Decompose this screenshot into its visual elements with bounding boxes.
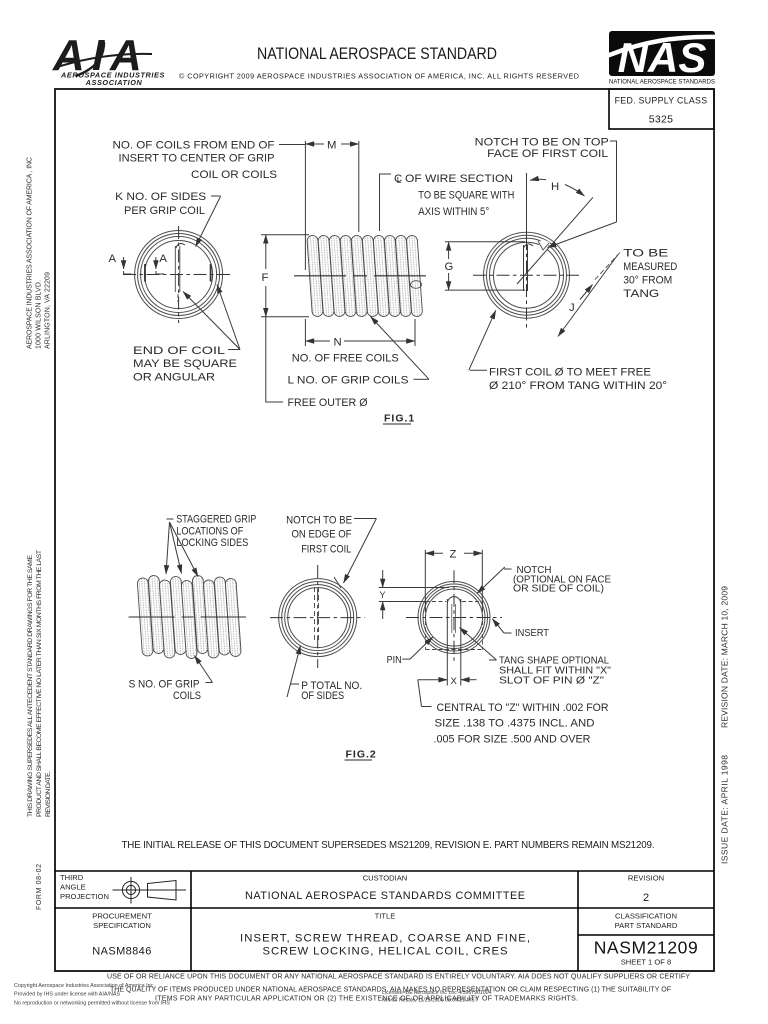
svg-text:AEROSPACE INDUSTRIES ASSOCIATI: AEROSPACE INDUSTRIES ASSOCIATION OF AMER…: [27, 157, 34, 349]
svg-text:INSERT: INSERT: [515, 628, 549, 639]
svg-text:ITEMS FOR ANY PARTICULAR APPLI: ITEMS FOR ANY PARTICULAR APPLICATION OR …: [155, 996, 578, 1003]
svg-text:REVISION DATE.: REVISION DATE.: [45, 771, 52, 817]
svg-text:STAGGERED GRIP: STAGGERED GRIP: [176, 514, 256, 526]
label: insert: [492, 619, 549, 639]
dimension Y: [379, 570, 449, 619]
svg-text:L: L: [397, 175, 402, 185]
section plane ticks: [144, 264, 146, 282]
svg-text:NO. OF FREE COILS: NO. OF FREE COILS: [292, 353, 399, 365]
svg-text:K NO. OF SIDES: K NO. OF SIDES: [115, 191, 206, 203]
svg-text:TITLE: TITLE: [375, 912, 396, 921]
svg-text:REVISION DATE: MARCH 10, 2009: REVISION DATE: MARCH 10, 2009: [720, 586, 730, 728]
svg-text:THE INITIAL RELEASE OF THIS DO: THE INITIAL RELEASE OF THIS DOCUMENT SUP…: [122, 840, 655, 851]
svg-text:INSERT TO CENTER OF GRIP: INSERT TO CENTER OF GRIP: [119, 153, 275, 165]
svg-text:J: J: [569, 302, 575, 314]
svg-text:PER GRIP COIL: PER GRIP COIL: [124, 205, 205, 217]
label: S no. of grip coils: [129, 656, 213, 703]
svg-text:2: 2: [643, 892, 649, 904]
svg-text:CENTRAL TO "Z" WITHIN .002 FOR: CENTRAL TO "Z" WITHIN .002 FOR: [437, 702, 609, 714]
svg-text:SHEET 1 OF 8: SHEET 1 OF 8: [621, 958, 672, 967]
svg-text:LOCATIONS OF: LOCATIONS OF: [176, 526, 243, 538]
end view circle C (middle): [270, 565, 365, 668]
svg-text:© COPYRIGHT 2009 AEROSPACE IND: © COPYRIGHT 2009 AEROSPACE INDUSTRIES AS…: [179, 72, 579, 81]
dimension N: [305, 319, 415, 349]
svg-text:TO BE: TO BE: [623, 248, 669, 260]
end view circle D (right, with pin): [406, 570, 502, 685]
projection symbol: [113, 877, 187, 904]
svg-text:1000 WILSON BLVD.: 1000 WILSON BLVD.: [36, 280, 43, 349]
svg-text:FACE OF FIRST COIL: FACE OF FIRST COIL: [487, 148, 608, 160]
svg-text:ARLINGTON, VA 22209: ARLINGTON, VA 22209: [45, 272, 52, 349]
svg-text:MAY BE SQUARE: MAY BE SQUARE: [133, 358, 238, 370]
svg-text:ON EDGE OF: ON EDGE OF: [292, 529, 352, 541]
svg-text:NASM21209: NASM21209: [594, 938, 699, 958]
svg-text:A: A: [159, 253, 167, 265]
drawing border frame: [55, 89, 714, 971]
dimension X: [418, 676, 477, 687]
svg-text:ANGLE: ANGLE: [60, 883, 86, 892]
svg-text:5325: 5325: [649, 114, 674, 126]
svg-text:No reproduction or networking: No reproduction or networking permitted …: [14, 1001, 170, 1007]
svg-text:NASM8846: NASM8846: [92, 946, 151, 958]
pin outline (hidden dashed): [426, 602, 483, 650]
svg-text:SLOT OF PIN Ø "Z": SLOT OF PIN Ø "Z": [499, 676, 605, 687]
label: notch to be on top face of first coil: [475, 136, 617, 247]
svg-text:Licensee=BE Aerospace Inc Loc: Licensee=BE Aerospace Inc Loc 4/59679610…: [382, 990, 492, 996]
svg-text:SPECIFICATION: SPECIFICATION: [93, 921, 151, 930]
label: K no. of sides per grip coil: [115, 191, 220, 247]
svg-text:CUSTODIAN: CUSTODIAN: [363, 874, 408, 883]
svg-text:INSERT, SCREW THREAD, COARSE A: INSERT, SCREW THREAD, COARSE AND FINE,: [240, 933, 530, 945]
leader: free outer dia: [266, 317, 283, 402]
svg-text:NOTCH TO BE: NOTCH TO BE: [286, 515, 352, 527]
svg-text:USE OF OR RELIANCE UPON THIS D: USE OF OR RELIANCE UPON THIS DOCUMENT OR…: [107, 974, 690, 981]
notch gap on first coil: [537, 239, 550, 253]
dimension G: [445, 242, 526, 290]
svg-text:G: G: [445, 261, 454, 273]
third angle projection cell: [60, 873, 186, 904]
svg-text:OF SIDES: OF SIDES: [301, 690, 344, 702]
tang slot X lines: [446, 599, 448, 686]
svg-text:END OF COIL: END OF COIL: [133, 345, 225, 357]
svg-text:Z: Z: [450, 549, 457, 561]
tang: [523, 245, 525, 291]
svg-text:THIRD: THIRD: [60, 873, 84, 882]
label: notch optional: [477, 565, 611, 595]
label: to be measured 30 deg from tang: [595, 248, 678, 301]
svg-text:COIL OR COILS: COIL OR COILS: [191, 169, 277, 181]
dimension M: [305, 140, 358, 271]
svg-text:NOTCH TO BE ON TOP: NOTCH TO BE ON TOP: [475, 136, 609, 148]
svg-text:OR ANGULAR: OR ANGULAR: [133, 372, 215, 384]
svg-text:.005 FOR SIZE .500 AND OVER: .005 FOR SIZE .500 AND OVER: [434, 734, 591, 746]
label: end of coil may be square or angular: [133, 285, 240, 384]
svg-text:Not for Resale, 11/25/2009 08:: Not for Resale, 11/25/2009 08:04:21 MST: [382, 998, 478, 1004]
svg-text:ASSOCIATION: ASSOCIATION: [85, 78, 143, 87]
dimension F: [261, 235, 309, 317]
dimension H (angle): [517, 179, 593, 284]
coil side view FIG.2 (staggered grip): [129, 575, 246, 659]
svg-text:NATIONAL AEROSPACE STANDARDS: NATIONAL AEROSPACE STANDARDS: [609, 79, 716, 86]
svg-text:30° FROM: 30° FROM: [623, 275, 672, 287]
svg-text:Copyright Aerospace Industries: Copyright Aerospace Industries Associati…: [14, 983, 155, 989]
svg-text:H: H: [551, 181, 559, 193]
label: pin: [387, 637, 433, 666]
svg-text:OF WIRE SECTION: OF WIRE SECTION: [405, 173, 513, 185]
svg-text:ISSUE DATE: APRIL 1998: ISSUE DATE: APRIL 1998: [720, 755, 730, 864]
label: centerline of wire section: [380, 173, 515, 231]
svg-text:Provided by IHS under license: Provided by IHS under license with AIA/N…: [14, 992, 120, 998]
svg-text:SCREW LOCKING, HELICAL COIL, C: SCREW LOCKING, HELICAL COIL, CRES: [263, 946, 508, 958]
svg-text:OR SIDE OF COIL): OR SIDE OF COIL): [513, 584, 604, 595]
svg-text:FED. SUPPLY CLASS: FED. SUPPLY CLASS: [615, 96, 708, 106]
svg-text:CLASSIFICATION: CLASSIFICATION: [615, 912, 677, 921]
svg-text:PROCUREMENT: PROCUREMENT: [92, 912, 152, 921]
title block grid: [55, 871, 714, 971]
svg-text:A: A: [109, 253, 117, 265]
svg-text:PRODUCT AND SHALL BECOME EFFEC: PRODUCT AND SHALL BECOME EFFECTIVE NO LA…: [36, 550, 43, 817]
svg-text:N: N: [334, 337, 342, 349]
svg-text:Y: Y: [380, 590, 387, 600]
label: no. of coils from end of insert: [113, 140, 278, 182]
svg-text:FIRST COIL: FIRST COIL: [301, 544, 351, 556]
label: notch to be on edge of first coil: [286, 515, 376, 584]
coil side view FIG.1: [294, 235, 430, 317]
svg-text:TO BE SQUARE WITH: TO BE SQUARE WITH: [418, 190, 514, 202]
tang hidden (dashed): [314, 587, 316, 641]
svg-text:Ø 210° FROM TANG WITHIN 20°: Ø 210° FROM TANG WITHIN 20°: [489, 380, 667, 392]
svg-text:NO. OF COILS FROM END OF: NO. OF COILS FROM END OF: [113, 140, 275, 152]
svg-text:LOCKING SIDES: LOCKING SIDES: [176, 537, 248, 549]
svg-text:F: F: [262, 272, 269, 284]
label: staggered grip locations of locking sides: [166, 514, 256, 577]
tang end-on: [174, 246, 176, 292]
svg-text:PROJECTION: PROJECTION: [60, 892, 109, 901]
svg-text:FORM 08-02: FORM 08-02: [36, 864, 43, 910]
svg-text:AXIS WITHIN 5°: AXIS WITHIN 5°: [418, 206, 489, 218]
end view circle B (right): [473, 173, 579, 331]
dimension J: [558, 255, 618, 337]
coil centerline: [294, 275, 430, 277]
notch on edge: [334, 577, 341, 588]
svg-text:THIS DRAWING SUPERSEDES ALL AN: THIS DRAWING SUPERSEDES ALL ANTECEDENT S…: [27, 555, 34, 817]
label: first coil dia to meet free: [469, 310, 667, 392]
svg-text:X: X: [451, 676, 458, 687]
svg-text:PART STANDARD: PART STANDARD: [615, 921, 678, 930]
svg-text:S NO. OF GRIP: S NO. OF GRIP: [129, 679, 200, 691]
section A-A letters and arrows: [109, 253, 168, 274]
svg-text:MEASURED: MEASURED: [623, 261, 677, 273]
label: tang shape optional: [460, 628, 612, 687]
svg-text:FIG.1: FIG.1: [384, 413, 415, 425]
end view circle A (left): [123, 226, 231, 323]
svg-text:REVISION: REVISION: [628, 874, 664, 883]
label: central to Z within .002: [418, 680, 609, 746]
svg-text:FREE OUTER Ø: FREE OUTER Ø: [288, 397, 368, 409]
NAS logo: [602, 31, 718, 86]
dimension Z: [425, 549, 482, 613]
leader to M extension: [279, 144, 305, 146]
svg-text:NATIONAL AEROSPACE STANDARD: NATIONAL AEROSPACE STANDARD: [257, 45, 497, 63]
svg-text:FIRST COIL Ø TO MEET FREE: FIRST COIL Ø TO MEET FREE: [489, 367, 651, 379]
svg-text:M: M: [327, 140, 336, 152]
svg-text:TANG: TANG: [623, 288, 659, 300]
svg-text:FIG.2: FIG.2: [346, 749, 377, 761]
AIA logo: [52, 31, 165, 87]
svg-text:NATIONAL AEROSPACE STANDARDS C: NATIONAL AEROSPACE STANDARDS COMMITTEE: [245, 890, 525, 902]
label: P total no. of sides: [287, 646, 362, 703]
wire end hook: [411, 281, 422, 289]
svg-text:L NO. OF GRIP COILS: L NO. OF GRIP COILS: [288, 375, 409, 387]
svg-text:COILS: COILS: [173, 690, 201, 702]
svg-text:SIZE .138 TO .4375 INCL. AND: SIZE .138 TO .4375 INCL. AND: [435, 718, 595, 730]
fed supply class box: [609, 89, 714, 129]
svg-text:PIN: PIN: [387, 655, 402, 666]
